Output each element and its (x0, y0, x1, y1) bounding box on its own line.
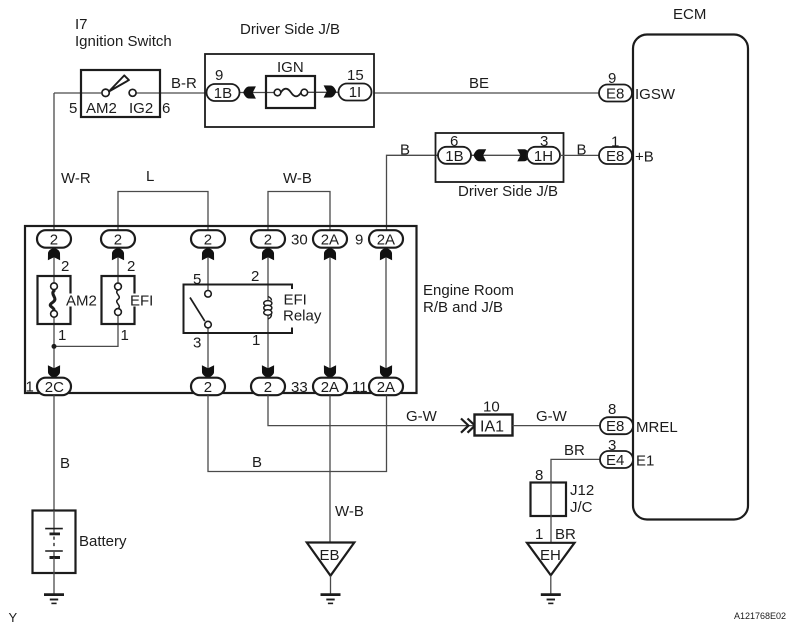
svg-text:2A: 2A (377, 232, 395, 249)
wire col5 inside box (329, 247, 331, 378)
arrow left toward 1B lower (474, 149, 487, 161)
junction node (52, 344, 57, 349)
svg-text:AM2: AM2 (86, 100, 117, 117)
wire W-B col5 to EB (329, 395, 331, 542)
connector E8 pin 9 IGSW (599, 85, 632, 102)
ignition switch contact IG2 (129, 89, 136, 96)
svg-text:R/B and J/B: R/B and J/B (423, 299, 503, 316)
svg-text:6: 6 (450, 133, 458, 150)
svg-text:Y: Y (9, 610, 18, 625)
svg-text:G-W: G-W (536, 408, 568, 425)
svg-text:BR: BR (564, 442, 585, 459)
svg-text:EFI: EFI (130, 293, 153, 310)
svg-text:3: 3 (608, 437, 616, 454)
svg-text:8: 8 (608, 401, 616, 418)
svg-text:15: 15 (347, 67, 364, 84)
svg-text:2: 2 (264, 232, 272, 249)
svg-text:B: B (400, 142, 410, 159)
svg-text:3: 3 (193, 335, 201, 352)
svg-text:1: 1 (252, 332, 260, 349)
relay switch lever (190, 298, 205, 322)
relay coil (268, 297, 272, 301)
svg-text:Driver Side J/B: Driver Side J/B (240, 21, 340, 38)
wire G-W col4 to IA1 (268, 395, 475, 425)
svg-text:1I: 1I (349, 84, 362, 101)
wire inside top J/B (240, 92, 275, 94)
junction J12 J/C box (531, 483, 567, 517)
wire col4 inside box (267, 247, 269, 378)
svg-text:E8: E8 (606, 418, 624, 435)
svg-text:BR: BR (555, 526, 576, 543)
svg-text:EB: EB (320, 547, 340, 564)
svg-text:B: B (60, 455, 70, 472)
wire inside lower J/B (471, 154, 527, 156)
svg-text:30: 30 (291, 232, 308, 249)
ground point EB (307, 543, 355, 576)
wire B col6 to lower J/B (387, 155, 438, 231)
fusible link AM2 (38, 276, 71, 324)
svg-text:A121768E02: A121768E02 (734, 611, 786, 621)
wire L bridge (118, 192, 208, 232)
wire col6 inside box (385, 247, 387, 378)
relay switch contact bottom (205, 321, 212, 328)
svg-text:+B: +B (635, 149, 654, 166)
wire main horizontal B-R/BE run y=93 (54, 92, 599, 94)
svg-text:B-R: B-R (171, 75, 197, 92)
svg-text:L: L (146, 168, 154, 185)
wire W-B bridge (268, 192, 330, 232)
battery (33, 511, 76, 574)
top connector ovals (37, 230, 403, 248)
wire IA1 to E8 (513, 425, 601, 427)
connector E4 pin 3 E1 (600, 451, 633, 468)
svg-text:2: 2 (204, 379, 212, 396)
svg-text:J12: J12 (570, 482, 594, 499)
svg-text:5: 5 (193, 271, 201, 288)
wire battery to ground (53, 573, 55, 595)
svg-text:8: 8 (535, 467, 543, 484)
relay switch contact top (205, 291, 212, 298)
svg-text:2: 2 (264, 379, 272, 396)
svg-text:AM2: AM2 (66, 293, 97, 310)
arrow left toward 1B (243, 86, 256, 98)
fuse EFI (102, 276, 135, 324)
svg-text:W-B: W-B (335, 503, 364, 520)
chevron junction (461, 419, 475, 433)
connector 1B pin 9 (207, 84, 240, 101)
relay EFI box (184, 285, 293, 334)
svg-text:1B: 1B (214, 85, 232, 102)
svg-text:2A: 2A (321, 232, 339, 249)
svg-text:W-R: W-R (61, 170, 91, 187)
svg-text:11: 11 (352, 379, 368, 396)
svg-text:W-B: W-B (283, 170, 312, 187)
wire J12 to EH (550, 516, 552, 543)
svg-text:2A: 2A (321, 379, 339, 396)
arrow right toward 1I (324, 85, 337, 97)
svg-text:Engine Room: Engine Room (423, 282, 514, 299)
svg-text:3: 3 (540, 133, 548, 150)
svg-text:9: 9 (355, 232, 363, 249)
arrows up below top ovals (48, 248, 392, 261)
svg-text:1: 1 (26, 379, 34, 396)
wire BR E4 to J12 (551, 459, 600, 482)
ignition switch I7 box (81, 70, 160, 117)
svg-text:6: 6 (162, 100, 170, 117)
svg-text:2: 2 (50, 232, 58, 249)
arrows down above bottom ovals (48, 365, 392, 378)
connector 1H pin 3 (527, 147, 560, 164)
svg-text:Driver Side J/B: Driver Side J/B (458, 183, 558, 200)
svg-text:2: 2 (251, 268, 259, 285)
ground battery (44, 595, 64, 604)
svg-text:E8: E8 (606, 148, 624, 165)
svg-text:MREL: MREL (636, 419, 678, 436)
svg-text:9: 9 (608, 70, 616, 87)
svg-text:1: 1 (611, 134, 619, 151)
svg-text:Battery: Battery (79, 533, 127, 550)
svg-text:9: 9 (215, 67, 223, 84)
svg-text:33: 33 (291, 379, 308, 396)
bottom connector ovals (37, 378, 403, 396)
fuse IGN (266, 76, 315, 108)
arrow right toward 1H (517, 149, 530, 161)
svg-text:B: B (252, 454, 262, 471)
wire W-R vertical (53, 93, 55, 231)
ground point EH (527, 543, 575, 576)
wire col2 inside box (117, 247, 119, 283)
svg-text:1: 1 (535, 526, 543, 543)
svg-text:Relay: Relay (283, 308, 322, 325)
connector E8 pin 1 +B (599, 147, 632, 164)
svg-text:G-W: G-W (406, 408, 438, 425)
svg-text:IGSW: IGSW (635, 86, 676, 103)
svg-text:E8: E8 (606, 86, 624, 103)
svg-text:IA1: IA1 (480, 419, 504, 436)
ground EB (321, 595, 341, 604)
svg-text:5: 5 (69, 100, 77, 117)
svg-text:E4: E4 (606, 452, 624, 469)
svg-text:BE: BE (469, 75, 489, 92)
driver side J/B (lower) box (436, 133, 564, 182)
driver side J/B (top) box (205, 54, 374, 127)
svg-text:I7: I7 (75, 16, 88, 33)
svg-text:2: 2 (127, 258, 135, 275)
svg-text:1: 1 (58, 327, 66, 344)
connector IA1 pin 10 (475, 415, 513, 436)
ground EH (541, 595, 561, 604)
engine room R/B and J/B box (25, 226, 417, 393)
svg-text:1H: 1H (534, 148, 553, 165)
svg-text:E1: E1 (636, 453, 654, 470)
svg-text:2C: 2C (45, 379, 64, 396)
svg-text:10: 10 (483, 399, 500, 416)
relay EFI label (280, 289, 323, 328)
svg-text:B: B (577, 142, 587, 159)
wire 1H to E8 (560, 154, 599, 156)
connector 1B pin 6 (438, 147, 471, 164)
wire col1 to battery (53, 395, 55, 510)
connector E8 pin 8 MREL (600, 417, 633, 434)
svg-text:1B: 1B (445, 148, 463, 165)
wire col3 inside box (207, 247, 209, 290)
svg-text:IGN: IGN (277, 59, 304, 76)
svg-text:2: 2 (204, 232, 212, 249)
ECM box (633, 35, 748, 520)
svg-text:Ignition Switch: Ignition Switch (75, 33, 172, 50)
svg-text:2: 2 (61, 258, 69, 275)
wire B col3 to col6 (208, 395, 387, 471)
svg-text:J/C: J/C (570, 499, 593, 516)
svg-text:1: 1 (121, 327, 129, 344)
svg-text:2A: 2A (377, 379, 395, 396)
svg-text:ECM: ECM (673, 6, 706, 23)
svg-text:EFI: EFI (284, 292, 307, 309)
ignition switch lever (109, 75, 129, 91)
svg-text:2: 2 (114, 232, 122, 249)
connector 1I pin 15 (339, 84, 372, 101)
wire EFI pin1 to junction (54, 315, 118, 346)
wire col1 inside box (53, 247, 55, 283)
svg-text:IG2: IG2 (129, 100, 153, 117)
ignition switch contact AM2 (102, 89, 109, 96)
svg-text:EH: EH (540, 547, 561, 564)
